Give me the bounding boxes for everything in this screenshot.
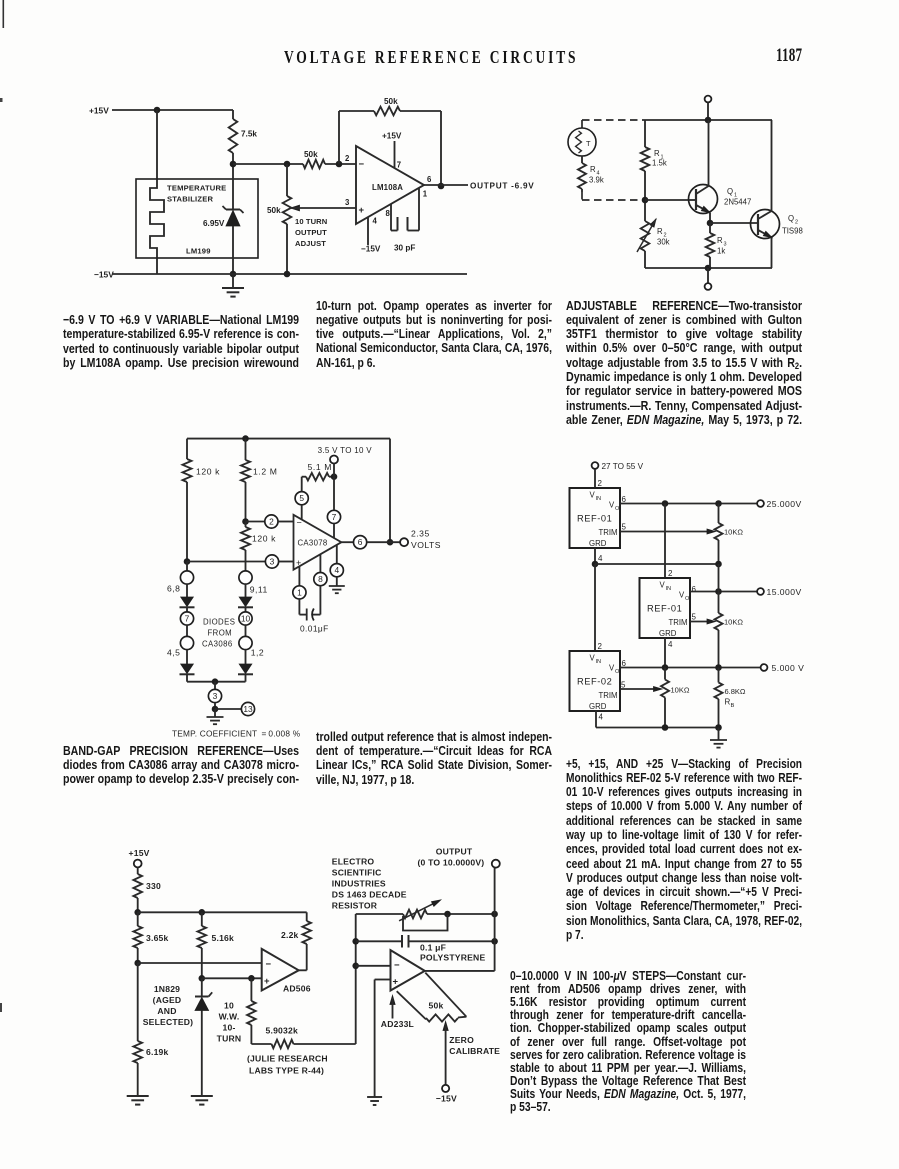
svg-text:7: 7 xyxy=(332,512,337,522)
svg-text:4,5: 4,5 xyxy=(167,648,180,658)
svg-text:IN: IN xyxy=(666,586,672,592)
svg-text:AND: AND xyxy=(157,1006,176,1016)
svg-text:GRD: GRD xyxy=(659,629,677,638)
svg-text:50k: 50k xyxy=(429,1001,444,1011)
svg-text:6: 6 xyxy=(358,537,363,547)
svg-text:2: 2 xyxy=(795,220,798,226)
svg-text:DIODES: DIODES xyxy=(203,618,235,627)
svg-text:GRD: GRD xyxy=(589,702,607,711)
svg-text:15.000V: 15.000V xyxy=(767,587,802,597)
svg-text:RESISTOR: RESISTOR xyxy=(332,901,378,911)
svg-text:AD506: AD506 xyxy=(283,984,311,994)
svg-text:1N829: 1N829 xyxy=(154,984,180,994)
svg-text:ELECTRO: ELECTRO xyxy=(332,857,375,867)
svg-text:5.16k: 5.16k xyxy=(212,933,235,943)
svg-text:−: − xyxy=(359,159,365,170)
svg-text:+15V: +15V xyxy=(129,848,150,858)
svg-text:6: 6 xyxy=(427,175,432,184)
svg-text:−15V: −15V xyxy=(94,270,114,280)
svg-text:O: O xyxy=(615,506,620,512)
svg-text:INDUSTRIES: INDUSTRIES xyxy=(332,879,386,889)
svg-text:30 pF: 30 pF xyxy=(394,244,415,253)
svg-text:3.65k: 3.65k xyxy=(146,933,169,943)
svg-text:5: 5 xyxy=(622,523,627,532)
svg-text:10 TURN: 10 TURN xyxy=(295,217,327,226)
svg-text:3.9k: 3.9k xyxy=(589,176,604,185)
svg-text:1,2: 1,2 xyxy=(251,648,264,658)
svg-text:OUTPUT: OUTPUT xyxy=(295,228,327,237)
svg-text:10KΩ: 10KΩ xyxy=(724,528,743,537)
svg-text:ADJUST: ADJUST xyxy=(295,239,326,248)
svg-text:2: 2 xyxy=(269,517,274,527)
svg-text:10KΩ: 10KΩ xyxy=(724,618,743,627)
svg-text:3: 3 xyxy=(270,557,275,567)
svg-text:(AGED: (AGED xyxy=(153,995,182,1005)
svg-text:−15V: −15V xyxy=(361,245,381,254)
svg-text:ZERO: ZERO xyxy=(449,1035,474,1045)
svg-text:−15V: −15V xyxy=(436,1094,457,1104)
svg-text:2.35: 2.35 xyxy=(411,529,430,539)
svg-text:AD233L: AD233L xyxy=(381,1019,414,1029)
svg-text:IN: IN xyxy=(596,659,602,665)
svg-text:T: T xyxy=(586,139,591,148)
svg-text:IN: IN xyxy=(596,496,602,502)
svg-text:2: 2 xyxy=(598,642,603,651)
svg-text:3: 3 xyxy=(213,691,218,701)
svg-text:Q: Q xyxy=(727,187,733,196)
svg-text:4: 4 xyxy=(334,565,339,575)
svg-text:LABS TYPE R-44): LABS TYPE R-44) xyxy=(249,1066,324,1076)
svg-text:10-: 10- xyxy=(222,1023,235,1033)
svg-text:CALIBRATE: CALIBRATE xyxy=(449,1046,500,1056)
svg-text:TURN: TURN xyxy=(217,1034,242,1044)
svg-text:2N5447: 2N5447 xyxy=(724,198,751,207)
svg-text:REF‑01: REF‑01 xyxy=(647,604,682,614)
svg-text:2: 2 xyxy=(598,479,603,488)
svg-text:1: 1 xyxy=(423,190,428,199)
svg-text:REF‑01: REF‑01 xyxy=(577,514,612,524)
svg-text:CA3086: CA3086 xyxy=(202,640,233,649)
svg-text:1: 1 xyxy=(297,587,302,597)
svg-text:W.W.: W.W. xyxy=(219,1012,240,1022)
svg-text:50k: 50k xyxy=(267,206,281,215)
svg-text:SELECTED): SELECTED) xyxy=(143,1017,194,1027)
svg-text:2: 2 xyxy=(668,569,673,578)
svg-text:0.01μF: 0.01μF xyxy=(300,624,329,634)
svg-text:−: − xyxy=(266,959,272,970)
svg-text:POLYSTYRENE: POLYSTYRENE xyxy=(420,953,485,963)
svg-text:8: 8 xyxy=(318,574,323,584)
svg-text:27 TO 55 V: 27 TO 55 V xyxy=(602,462,644,471)
svg-text:OUTPUT: OUTPUT xyxy=(436,847,473,857)
svg-text:STABILIZER: STABILIZER xyxy=(167,195,213,204)
svg-text:+15V: +15V xyxy=(382,132,402,141)
svg-text:R: R xyxy=(654,149,660,158)
svg-text:5: 5 xyxy=(299,493,304,503)
svg-text:7.5k: 7.5k xyxy=(241,130,257,139)
svg-text:5.9032k: 5.9032k xyxy=(266,1026,298,1036)
svg-text:6.8KΩ: 6.8KΩ xyxy=(725,687,746,696)
svg-text:10: 10 xyxy=(224,1001,234,1011)
svg-text:GRD: GRD xyxy=(589,539,607,548)
svg-text:120 k: 120 k xyxy=(196,467,220,477)
svg-text:R: R xyxy=(717,236,723,245)
svg-text:R: R xyxy=(657,227,663,236)
svg-text:+: + xyxy=(359,205,365,216)
svg-text:10KΩ: 10KΩ xyxy=(671,686,690,695)
svg-text:50k: 50k xyxy=(384,97,398,106)
svg-text:OUTPUT ‑6.9V: OUTPUT ‑6.9V xyxy=(470,182,535,191)
svg-text:O: O xyxy=(685,596,690,602)
svg-text:5.000 V: 5.000 V xyxy=(772,663,805,673)
svg-text:R: R xyxy=(590,165,596,174)
svg-text:+15V: +15V xyxy=(89,106,109,116)
svg-text:TIS98: TIS98 xyxy=(782,227,803,236)
svg-text:8: 8 xyxy=(386,209,391,218)
svg-text:TEMPERATURE: TEMPERATURE xyxy=(167,184,226,193)
svg-text:(0 TO 10.0000V): (0 TO 10.0000V) xyxy=(418,857,485,867)
svg-text:O: O xyxy=(615,669,620,675)
svg-text:330: 330 xyxy=(146,881,161,891)
svg-text:TRIM: TRIM xyxy=(599,528,618,537)
svg-text:FROM: FROM xyxy=(208,629,233,638)
svg-text:+: + xyxy=(264,976,270,987)
svg-text:4: 4 xyxy=(668,640,673,649)
svg-text:TRIM: TRIM xyxy=(669,618,688,627)
svg-text:6,8: 6,8 xyxy=(167,584,180,594)
svg-text:VOLTS: VOLTS xyxy=(411,540,441,550)
svg-text:1k: 1k xyxy=(717,247,725,256)
svg-text:4: 4 xyxy=(599,713,604,722)
svg-text:10: 10 xyxy=(241,614,251,624)
svg-text:4: 4 xyxy=(598,554,603,563)
svg-text:7: 7 xyxy=(397,161,401,170)
svg-text:3: 3 xyxy=(345,198,350,207)
svg-text:30k: 30k xyxy=(657,238,670,247)
svg-text:LM199: LM199 xyxy=(186,247,211,256)
svg-text:5.1 M: 5.1 M xyxy=(308,462,333,472)
svg-text:3.5 V TO 10 V: 3.5 V TO 10 V xyxy=(318,446,373,455)
svg-text:1.2 M: 1.2 M xyxy=(253,467,278,477)
svg-text:CA3078: CA3078 xyxy=(298,539,328,548)
svg-text:SCIENTIFIC: SCIENTIFIC xyxy=(332,868,382,878)
svg-text:LM108A: LM108A xyxy=(372,183,403,192)
svg-text:+: + xyxy=(393,977,399,988)
svg-text:(JULIE RESEARCH: (JULIE RESEARCH xyxy=(247,1054,328,1064)
svg-text:4: 4 xyxy=(373,217,378,226)
svg-text:2.2k: 2.2k xyxy=(281,930,299,940)
svg-text:B: B xyxy=(731,703,735,709)
svg-text:Q: Q xyxy=(788,214,794,223)
svg-text:2: 2 xyxy=(345,154,350,163)
svg-text:TEMP. COEFFICIENT = 0.008 %: TEMP. COEFFICIENT = 0.008 % xyxy=(172,728,301,738)
svg-text:−: − xyxy=(394,960,400,971)
svg-text:REF‑02: REF‑02 xyxy=(577,677,612,687)
svg-text:6.95V: 6.95V xyxy=(203,219,225,228)
svg-text:TRIM: TRIM xyxy=(599,691,618,700)
svg-text:9,11: 9,11 xyxy=(250,585,268,595)
svg-text:25.000V: 25.000V xyxy=(767,499,802,509)
svg-text:7: 7 xyxy=(185,614,190,624)
svg-text:13: 13 xyxy=(243,704,253,714)
svg-text:50k: 50k xyxy=(304,150,318,159)
svg-text:6: 6 xyxy=(692,585,697,594)
svg-text:0.1 μF: 0.1 μF xyxy=(420,943,446,953)
svg-text:5: 5 xyxy=(692,613,697,622)
svg-text:1.5k: 1.5k xyxy=(652,159,667,168)
svg-text:DS 1463 DECADE: DS 1463 DECADE xyxy=(332,890,407,900)
svg-text:120 k: 120 k xyxy=(252,534,276,544)
svg-text:6.19k: 6.19k xyxy=(146,1047,169,1057)
